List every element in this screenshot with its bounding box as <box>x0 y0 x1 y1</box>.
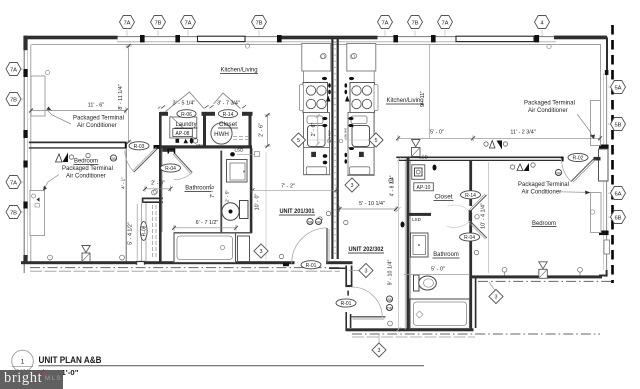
leader lines from top hexagons to wall <box>127 30 542 36</box>
bedroom202 bottom wall west corner down to bathroom block <box>471 277 475 330</box>
svg-text:5' - 4 1/2": 5' - 4 1/2" <box>127 222 133 245</box>
hexagon 7A top2 <box>181 16 196 29</box>
svg-text:10' - 4 1/4": 10' - 4 1/4" <box>481 203 487 229</box>
left fridge box <box>302 44 331 72</box>
SB circle right bedroom <box>555 169 561 175</box>
top wall window sill line <box>117 41 556 43</box>
svg-text:7B: 7B <box>411 20 418 26</box>
svg-text:Packaged Terminal: Packaged Terminal <box>518 182 569 188</box>
jamb left of entry opening <box>283 263 289 267</box>
unit202 entry door leaf <box>352 316 386 318</box>
svg-text:5: 5 <box>375 138 378 144</box>
PTAC unit left-bottom <box>30 191 45 236</box>
right wall small vent box <box>604 240 610 254</box>
right wall outer face <box>606 73 608 277</box>
top wall solid segment left <box>24 36 118 40</box>
door opening gap in bottom wall (unit201 entry) <box>295 260 327 265</box>
svg-text:7A: 7A <box>10 67 17 73</box>
PTAC leader 2 <box>43 175 59 191</box>
svg-text:7A: 7A <box>441 20 448 26</box>
marker triangles bedroom north (solid) <box>63 153 69 163</box>
svg-text:Air Conditioner: Air Conditioner <box>66 174 106 180</box>
svg-text:R-02: R-02 <box>573 156 584 162</box>
tub202 outer <box>410 299 470 329</box>
svg-text:4' - 1": 4' - 1" <box>121 177 126 189</box>
right wall pier mid <box>599 145 609 150</box>
top-right corner wall <box>554 37 607 73</box>
svg-text:Packaged Terminal: Packaged Terminal <box>73 116 124 122</box>
svg-text:R-08: R-08 <box>142 225 148 236</box>
svg-text:Air Conditioner: Air Conditioner <box>528 108 568 114</box>
left wall outer face <box>23 37 25 273</box>
hexagon 7B top2 <box>252 16 267 29</box>
sill dash-dot line below bottom wall <box>30 267 340 269</box>
left kitchen knobs (black) <box>322 77 327 80</box>
svg-text:5B: 5B <box>614 122 621 128</box>
closet north wall <box>143 198 163 202</box>
triangles right bedroom wall (solid+hollow) <box>490 141 496 149</box>
svg-text:3: 3 <box>365 269 368 275</box>
svg-text:5: 5 <box>297 138 300 144</box>
svg-text:2' - 6": 2' - 6" <box>259 123 265 137</box>
hexagon 5A right <box>611 81 626 94</box>
AP-08 tag box <box>173 129 193 137</box>
svg-text:R-01: R-01 <box>306 263 317 269</box>
demising wall west leaf <box>331 39 333 259</box>
left kitchen triangle marker <box>326 96 331 102</box>
svg-text:Closet: Closet <box>219 122 237 128</box>
hexagon 4 top <box>535 16 550 29</box>
svg-text:1: 1 <box>21 359 25 366</box>
oval tag R-14 <box>218 110 237 118</box>
unit202 west wall segment to bottom corner <box>346 312 350 331</box>
bedroom south wall lower line <box>29 147 127 149</box>
door T-jamb <box>469 210 472 222</box>
closet shelf dashes along east wall <box>155 205 157 258</box>
left wall pier bottom <box>23 255 27 264</box>
label Bathroom right <box>433 252 460 258</box>
right base cabinet <box>348 148 374 175</box>
svg-text:SB: SB <box>387 298 392 302</box>
svg-text:5' - 10 1/4": 5' - 10 1/4" <box>359 201 385 207</box>
oval tag R-01 (unit202) <box>336 299 356 307</box>
tub-side closet rect <box>238 236 250 262</box>
matchline dashed right <box>611 25 614 283</box>
bedroom202 north wall lower line <box>399 159 563 161</box>
left toilet bowl <box>222 203 239 221</box>
left range burners <box>306 86 315 95</box>
oval tag R-04 <box>161 164 181 172</box>
oval tag R-14b <box>461 191 481 199</box>
leader diamond5 pair <box>306 139 370 141</box>
top wall outlet circle 2 <box>547 44 551 48</box>
top wall outer face line <box>24 36 606 38</box>
laundry/closet south wall (bathroom north wall) <box>159 145 252 148</box>
svg-text:R-14: R-14 <box>465 193 476 199</box>
bedroom south wall upper line <box>29 141 127 143</box>
PTAC unit left-top <box>31 76 45 116</box>
left base cabinet <box>304 148 330 175</box>
svg-text:OF1: OF1 <box>196 144 203 148</box>
left wall pier top corner <box>23 36 27 51</box>
LSD dot bath202 <box>401 222 405 228</box>
closet east wall <box>249 114 252 148</box>
left sink base <box>304 113 330 148</box>
left wall pier 4 <box>23 161 27 168</box>
left fridge circle <box>321 53 326 58</box>
door R-04b arc <box>447 221 470 227</box>
right wall pier low <box>599 231 609 236</box>
svg-text:11' - 6": 11' - 6" <box>88 103 104 109</box>
leader diamond3 right <box>489 282 495 291</box>
label Kitchen/Living right <box>386 98 424 104</box>
vanity202 outer <box>411 233 429 257</box>
right sink bowl <box>352 126 370 147</box>
diamond 5 right <box>369 133 383 147</box>
laundry north wall segment left <box>160 112 168 116</box>
kitchen edge extension line <box>429 45 431 138</box>
hexagon 6A right <box>611 187 626 200</box>
svg-text:3: 3 <box>378 348 381 354</box>
unit202 west wall end cap <box>345 285 352 287</box>
svg-text:7A: 7A <box>123 20 130 26</box>
closet east wall (laundry west wall) <box>159 112 162 262</box>
diamond 5 left <box>291 133 305 147</box>
svg-text:7A: 7A <box>381 20 388 26</box>
bedroom wall end cap <box>125 142 127 148</box>
door R-04 leaf (bathroom, left unit) <box>174 153 192 173</box>
left tub drain <box>221 246 225 250</box>
sill thin line below bottom wall <box>30 270 340 272</box>
bright logo red beam <box>40 370 43 375</box>
triangles right bedroom2 (solid) <box>524 163 530 171</box>
PTAC leader 4 <box>559 191 589 194</box>
outlet circle near entry <box>279 254 283 258</box>
door R-04b bath202 leaf <box>470 221 487 238</box>
dim line 2'-6" <box>265 115 271 146</box>
left bath vanity inner <box>230 163 245 180</box>
marker circles by triangles <box>69 155 73 159</box>
toilet202 inner <box>424 279 434 287</box>
svg-text:10' - 0": 10' - 0" <box>255 194 261 211</box>
right dishwasher box <box>350 167 370 175</box>
svg-text:7B: 7B <box>255 20 262 26</box>
svg-text:5A: 5A <box>614 85 621 91</box>
svg-text:Kitchen/Living: Kitchen/Living <box>221 68 258 74</box>
bedroom202 north wall end jamb <box>561 157 563 162</box>
door R-02 arc <box>562 159 572 182</box>
left striped appliance square <box>311 152 316 157</box>
bifold jamb ticks <box>158 105 246 108</box>
demising wall east leaf <box>337 39 339 259</box>
notch jamb <box>137 262 145 265</box>
unit202 bottom wall <box>346 328 474 331</box>
laundry appliance box <box>170 117 197 138</box>
svg-text:Bedroom: Bedroom <box>74 159 98 165</box>
svg-text:3: 3 <box>260 249 263 255</box>
hexagon 7A top4 <box>438 16 453 29</box>
hexagon 7A left2 <box>6 176 21 189</box>
unit202 living thermostat (triangle+box) <box>412 140 421 147</box>
bath202 outlet circle <box>388 321 393 326</box>
bath202 east wall <box>469 213 472 331</box>
label Bathroom left <box>185 186 212 192</box>
unit202 entry jamb tick <box>347 291 349 296</box>
right range box <box>350 83 375 113</box>
laundry floor symbols <box>176 139 180 143</box>
right sink base <box>348 113 374 148</box>
bathroom north wall segment right of door <box>161 148 175 151</box>
bright MLS logo box <box>0 370 63 389</box>
right wall window mullion line <box>603 73 605 270</box>
tub north edge line <box>174 232 252 234</box>
svg-text:2' - 6": 2' - 6" <box>311 123 317 137</box>
svg-text:Bathroom: Bathroom <box>433 252 459 258</box>
title underline <box>39 365 425 367</box>
toilet202 bowl <box>419 276 437 290</box>
svg-text:7B: 7B <box>154 20 161 26</box>
closet202 east wall segment <box>469 160 472 206</box>
svg-text:Kitchen/Living: Kitchen/Living <box>387 98 424 104</box>
svg-text:6A: 6A <box>614 191 621 197</box>
laundry-closet divider wall <box>203 114 206 148</box>
svg-text:R-01: R-01 <box>341 301 352 307</box>
LSD leader to symbol <box>237 153 254 155</box>
HWH circle <box>211 123 232 144</box>
oval tag R-03 <box>129 142 149 150</box>
svg-text:LSD: LSD <box>412 217 422 222</box>
right range side bump <box>374 85 378 111</box>
svg-text:3' - 7 3/4": 3' - 7 3/4" <box>217 101 240 107</box>
title bubble circle <box>12 350 34 372</box>
svg-text:HWH: HWH <box>214 131 229 138</box>
wall pier P1 <box>140 35 145 42</box>
hexagon 6B right <box>611 211 626 224</box>
unit201 entry door leaf <box>326 228 328 264</box>
toilet202 tank <box>414 275 420 291</box>
closet bifold doors <box>214 93 241 109</box>
marker triangle hollow <box>56 154 63 162</box>
left wall pier 3 <box>23 130 27 138</box>
door R-14 arc <box>448 205 471 211</box>
svg-text:Closet: Closet <box>435 195 453 201</box>
svg-text:R-03: R-03 <box>134 144 145 150</box>
svg-text:Air Conditioner: Air Conditioner <box>522 190 562 196</box>
right fridge circle <box>351 53 356 58</box>
svg-text:8' - 11 1/4": 8' - 11 1/4" <box>118 84 124 109</box>
hexagon 7B left2 <box>6 206 21 219</box>
svg-text:AP-10: AP-10 <box>417 185 431 191</box>
vanity202 inner <box>413 236 426 255</box>
wall pier P4 <box>393 35 398 42</box>
outlet circle bottom wall 1 <box>48 255 53 260</box>
svg-text:3: 3 <box>495 295 498 301</box>
left bath ceiling fan circle <box>152 190 157 195</box>
svg-text:Packaged Terminal: Packaged Terminal <box>62 166 113 172</box>
bright MLS logo text <box>4 370 42 386</box>
diamond 3 left bath <box>254 244 268 258</box>
window W1 in top wall <box>198 36 246 41</box>
left bath vanity outer <box>227 160 248 183</box>
right wall bottom corner <box>599 270 607 276</box>
MLS text <box>45 375 62 382</box>
svg-text:7' - 2": 7' - 2" <box>281 184 295 190</box>
svg-text:DW REF: DW REF <box>344 128 348 140</box>
top wall solid segment right <box>554 36 607 40</box>
leader lines right hexagons <box>608 87 612 217</box>
bedroom202 outlet circle 1 <box>502 267 507 272</box>
door R-03 arc <box>125 151 134 172</box>
wall pier P6 <box>535 35 540 42</box>
svg-text:SB: SB <box>316 221 321 225</box>
diamond 3 unit202 <box>359 263 373 277</box>
PTAC louver right-mid <box>599 149 609 181</box>
svg-text:Bedroom: Bedroom <box>532 221 556 227</box>
PTAC circle right wall <box>590 210 594 214</box>
laundry door swing diagonal <box>171 116 196 140</box>
left wall window mid line <box>27 50 29 258</box>
svg-text:5' - 0": 5' - 0" <box>431 267 445 273</box>
svg-text:Air Conditioner: Air Conditioner <box>77 123 117 129</box>
laundry bifold doors <box>166 92 205 112</box>
dim line 8-11 vertical <box>126 46 132 142</box>
left wall inner face <box>30 45 32 262</box>
demising top circles <box>320 54 325 59</box>
left range box <box>303 83 328 113</box>
svg-text:5' - 0": 5' - 0" <box>430 130 444 136</box>
right sink top drawer <box>351 116 367 124</box>
tub202 diamond mark <box>416 311 423 318</box>
hexagon 7B top3 <box>408 16 423 29</box>
svg-text:Packaged Terminal: Packaged Terminal <box>524 101 575 107</box>
svg-text:UNIT 201/301: UNIT 201/301 <box>280 208 315 215</box>
wall pier P2 <box>175 35 180 42</box>
hexagon 5B right <box>611 118 626 131</box>
svg-text:7B: 7B <box>10 97 17 103</box>
bedroom202 bottom wall <box>470 275 602 278</box>
door R-14 closet202 leaf <box>470 195 487 212</box>
PTAC leader 1 <box>47 110 72 125</box>
oval tag R-04b <box>460 233 480 241</box>
right kitchen triangle marker <box>345 96 350 102</box>
vanity202 dot <box>418 244 420 246</box>
unit201 entry door arc <box>292 228 327 264</box>
oval tag R-06 <box>177 110 196 118</box>
jamb pier between doors <box>168 149 174 153</box>
svg-text:6' - 7 1/2": 6' - 7 1/2" <box>196 220 219 226</box>
svg-text:R-14: R-14 <box>223 112 234 118</box>
left tub outer <box>174 233 236 263</box>
closet shelf dashes right of HWH <box>233 136 248 138</box>
left dishwasher box <box>306 167 326 175</box>
svg-text:2' - 0": 2' - 0" <box>151 181 165 187</box>
LSD dot closet202 <box>433 165 437 171</box>
svg-text:R-04: R-04 <box>464 235 475 241</box>
closet top fixture circle <box>153 189 157 193</box>
hexagon 7A top3 <box>378 16 393 29</box>
hexagon 7B left1 <box>6 93 21 106</box>
outlet circle bottom wall 2 <box>120 255 125 260</box>
svg-text:UNIT 202/302: UNIT 202/302 <box>349 246 384 253</box>
label Bedroom right <box>532 221 557 227</box>
notch opening in bottom wall <box>137 261 145 265</box>
svg-text:R-06: R-06 <box>181 112 192 118</box>
svg-text:3: 3 <box>351 183 354 189</box>
top wall inner face line <box>32 44 601 46</box>
left kitchen counter edge <box>304 44 331 175</box>
bedroom202 sill dash-dot <box>478 280 612 282</box>
oval tag R-08 (vertical) <box>140 222 147 241</box>
bedroom closet shelf dashed lines <box>152 205 154 258</box>
bathroom east wall (to tub closet) <box>250 148 253 233</box>
laundry/closet north wall mid pier <box>202 112 216 116</box>
svg-text:LSD: LSD <box>235 147 245 152</box>
svg-text:Laundry: Laundry <box>176 122 197 128</box>
diamond 3 right <box>489 289 503 303</box>
thermostat bedroom202 <box>539 262 547 269</box>
svg-text:4' - 8 3/4": 4' - 8 3/4" <box>389 175 395 196</box>
window W2 in top wall <box>456 36 534 41</box>
svg-text:AP-08: AP-08 <box>176 131 190 137</box>
svg-text:7A: 7A <box>184 20 191 26</box>
diamond 3 center <box>345 178 359 192</box>
SB circle left bedroom <box>110 155 116 161</box>
title bubble divider <box>12 366 34 368</box>
pocket door R-08 band <box>140 203 142 261</box>
svg-text:Bathroom: Bathroom <box>185 186 211 192</box>
PTAC small circle left-top unit <box>45 70 49 74</box>
LSD dot left bath <box>230 152 235 156</box>
leader diamond3 left-mid <box>349 270 360 272</box>
PTAC unit right-bottom <box>591 193 602 233</box>
svg-text:R-04: R-04 <box>165 166 176 172</box>
hexagon 7B top <box>151 16 166 29</box>
right range burners <box>352 86 361 95</box>
closet/bath block west wall face lines <box>404 159 406 330</box>
svg-text:7A: 7A <box>10 180 17 186</box>
leader diamond3 bottom <box>378 334 380 343</box>
left bath vanity dot <box>243 171 245 173</box>
hexagon 7A left1 <box>6 63 21 76</box>
left sink bowl <box>308 126 326 147</box>
closet wall outlet circles bedroom side <box>475 215 479 219</box>
demising wall insulation dash line <box>334 42 336 256</box>
svg-text:6B: 6B <box>614 215 621 221</box>
door R-02 leaf (bedroom202) double line <box>571 159 594 182</box>
left sink top drawer <box>307 116 323 124</box>
svg-text:2' - 5": 2' - 5" <box>225 190 231 203</box>
thermostat left (triangle+box) <box>82 246 90 253</box>
SB DB circles unit202 <box>386 296 392 302</box>
DB SB circles unit201 <box>307 218 313 224</box>
label Kitchen/Living left <box>220 68 258 74</box>
bedroom202 outlet circle 2 <box>578 267 583 272</box>
label UNIT 201/301 <box>279 208 315 215</box>
demising wall jog: step down right of party wall <box>329 267 346 269</box>
right fridge box <box>347 44 376 72</box>
door R-03 leaf (bedroom, left unit) <box>134 149 158 173</box>
demising wall circles at kitchen sink level <box>327 139 331 143</box>
svg-text:11' - 2 3/4": 11' - 2 3/4" <box>510 130 535 136</box>
wall pier P3 <box>277 35 282 42</box>
diamond 3 bottom <box>372 343 386 357</box>
toilet nook partition wall <box>220 151 222 233</box>
unit202 entry area circle <box>389 178 393 182</box>
closet202 south wall <box>407 213 432 216</box>
bedroom/closet divider wall vertical <box>125 148 127 262</box>
oval tag R-02 <box>568 153 588 161</box>
top wall solid segment center <box>277 36 378 40</box>
